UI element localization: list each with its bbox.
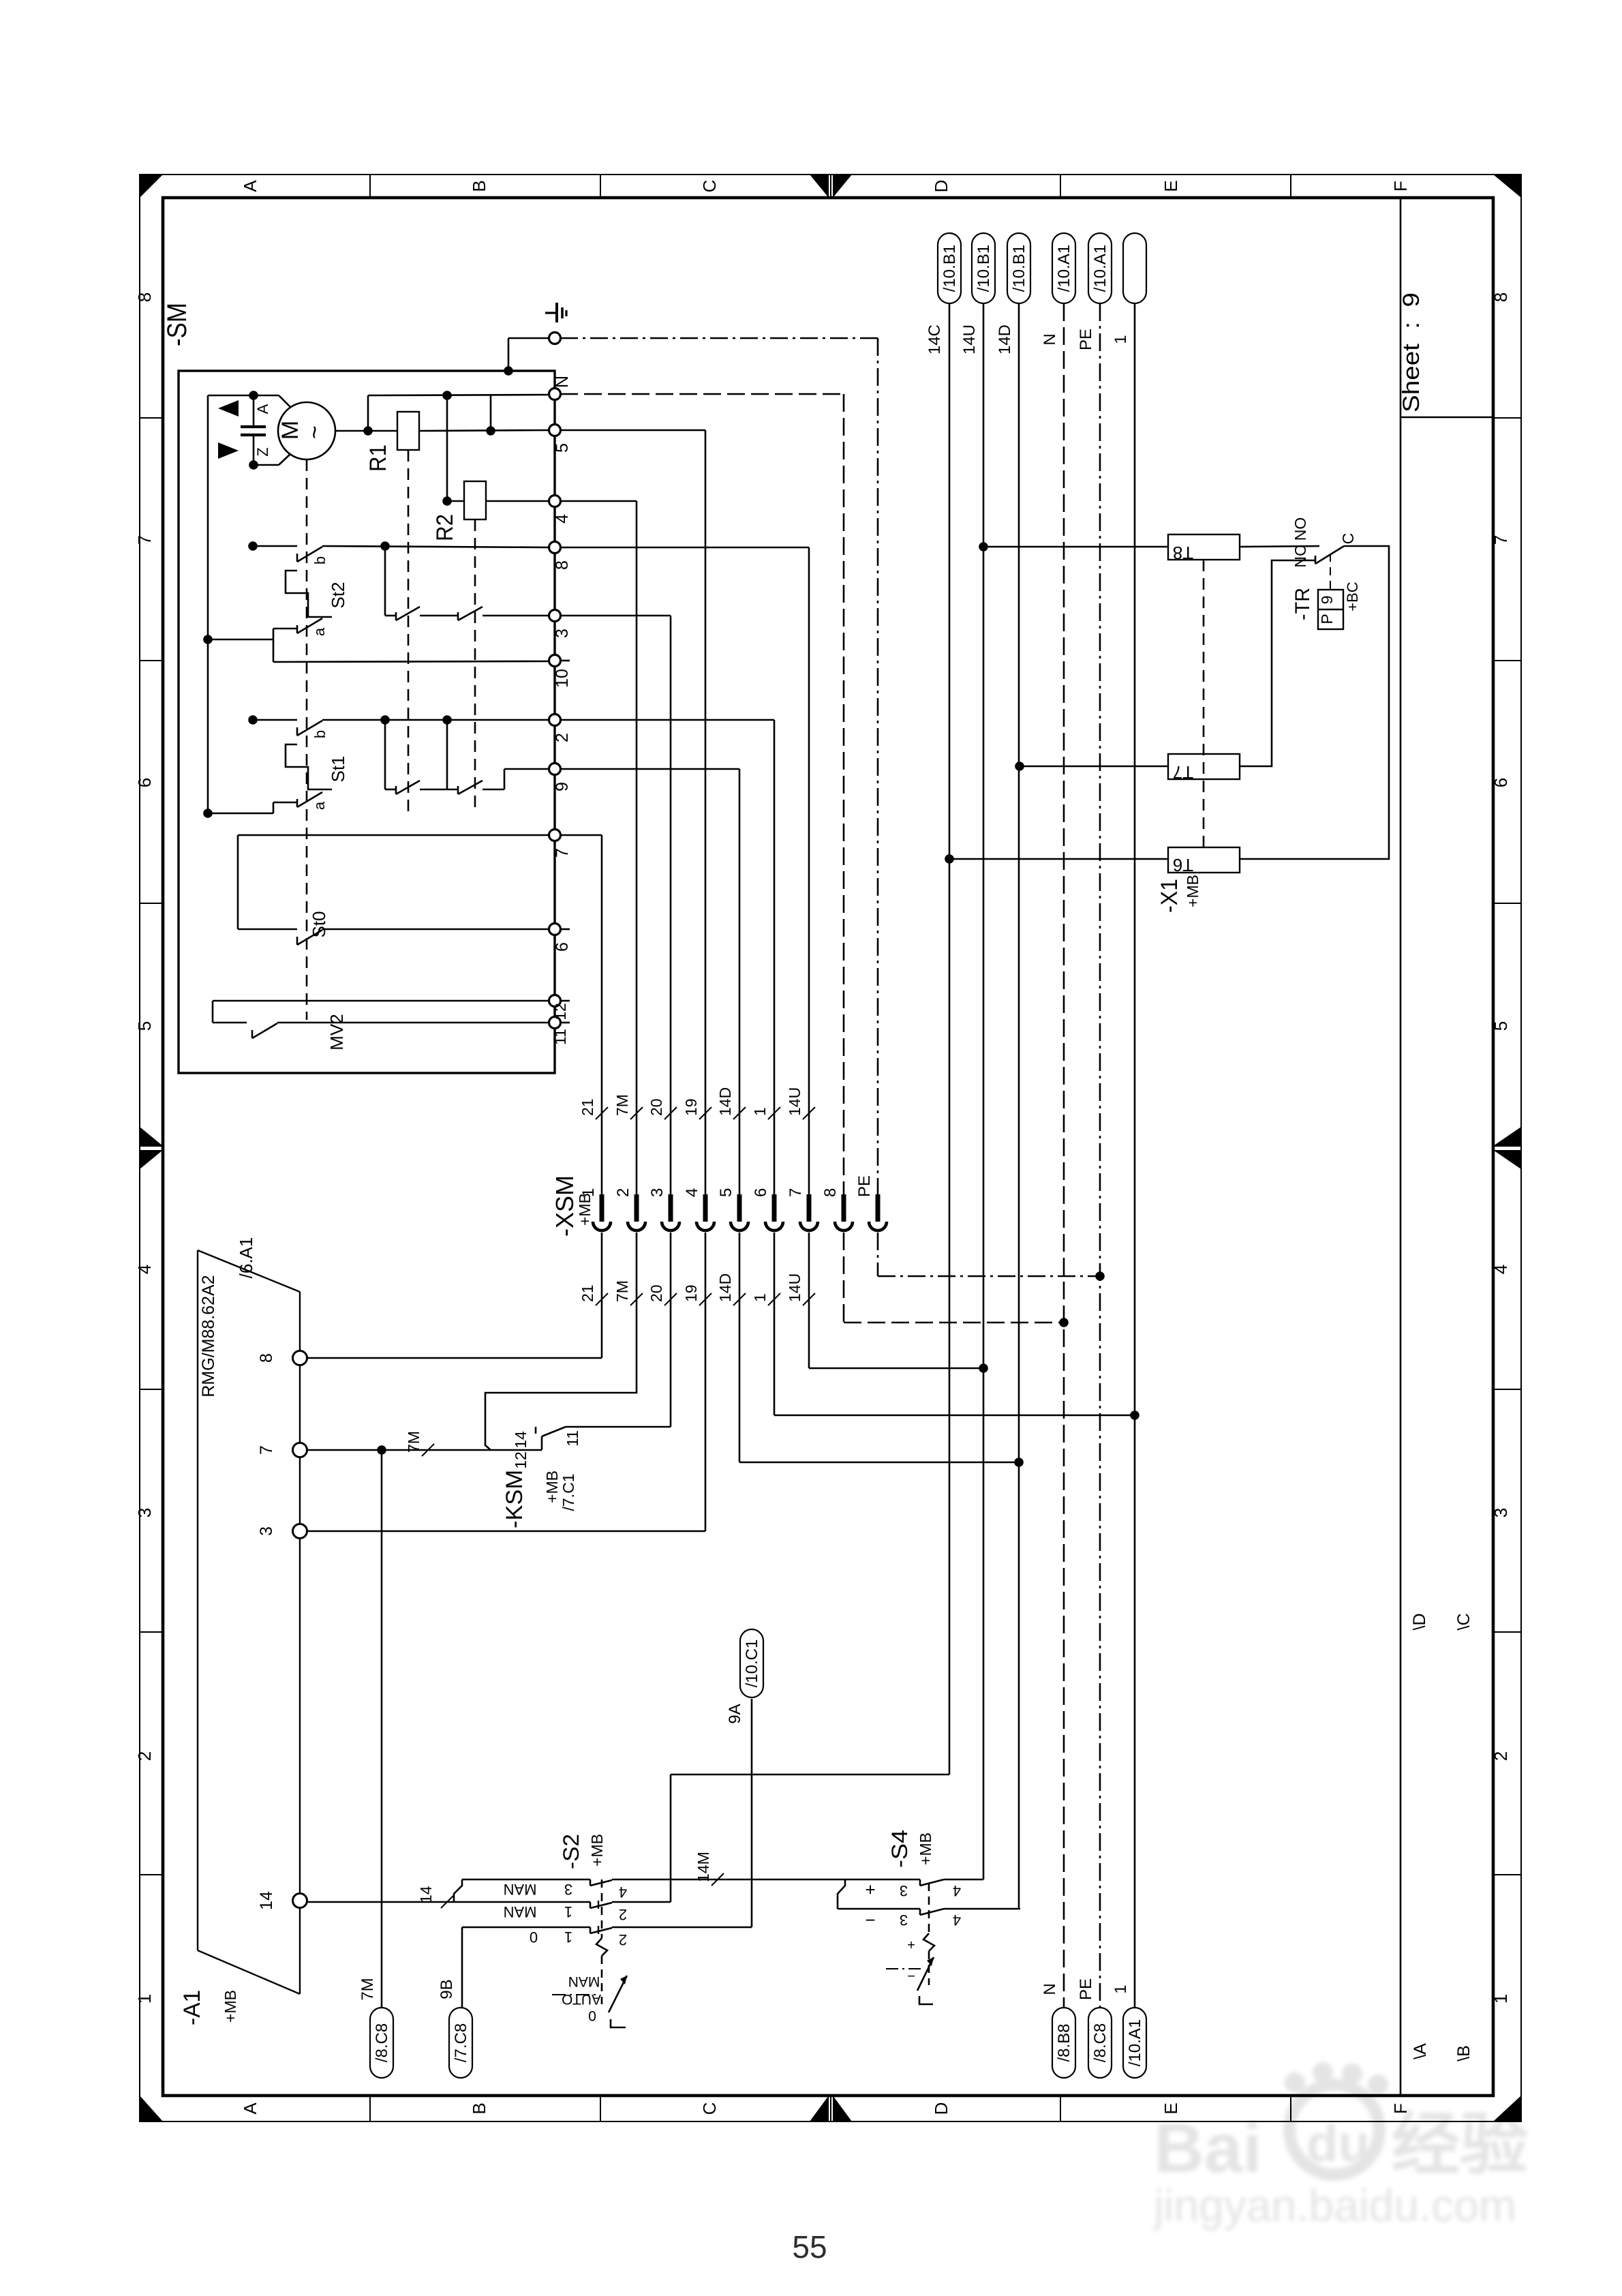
- svg-text:-A1: -A1: [179, 1990, 205, 2025]
- svg-text:4: 4: [1490, 1265, 1511, 1274]
- svg-text:14D: 14D: [716, 1087, 734, 1116]
- svg-text:2: 2: [1490, 1751, 1511, 1761]
- svg-text:2: 2: [619, 1931, 627, 1948]
- svg-text:b: b: [311, 556, 328, 564]
- svg-text:NC: NC: [1291, 545, 1309, 567]
- svg-text:R1: R1: [365, 444, 391, 472]
- svg-text:21: 21: [579, 1098, 596, 1116]
- svg-text:14: 14: [417, 1886, 435, 1903]
- svg-text:/7.C8: /7.C8: [452, 2023, 470, 2062]
- svg-text:/10.B1: /10.B1: [975, 245, 993, 292]
- svg-text:RMG/M88.62A2: RMG/M88.62A2: [199, 1275, 218, 1397]
- svg-text:2: 2: [134, 1751, 155, 1761]
- svg-text:1: 1: [1112, 335, 1130, 344]
- svg-text:0: 0: [530, 1929, 538, 1946]
- svg-text:6: 6: [134, 778, 155, 787]
- svg-text:MAN: MAN: [504, 1881, 537, 1898]
- svg-text:+MB: +MB: [543, 1470, 561, 1503]
- svg-text:\D: \D: [1410, 1614, 1429, 1631]
- svg-text:2: 2: [619, 1906, 627, 1923]
- svg-text:+MB: +MB: [221, 1990, 239, 2023]
- svg-text:−: −: [865, 1910, 875, 1931]
- svg-text:3: 3: [134, 1508, 155, 1517]
- svg-text:5: 5: [553, 443, 572, 453]
- svg-text:7M: 7M: [613, 1094, 631, 1116]
- svg-text:AUTO: AUTO: [562, 1991, 601, 2007]
- svg-text:/8.C8: /8.C8: [1091, 2023, 1110, 2062]
- svg-text:+MB: +MB: [576, 1193, 594, 1226]
- svg-text:8: 8: [134, 292, 155, 302]
- svg-text:B: B: [469, 2102, 489, 2114]
- svg-text:/10.A1: /10.A1: [1126, 2019, 1144, 2066]
- svg-text:A: A: [240, 2102, 260, 2115]
- svg-text:C: C: [699, 180, 720, 193]
- svg-text:6: 6: [553, 942, 572, 952]
- svg-text:3: 3: [900, 1912, 908, 1929]
- svg-text:MV2: MV2: [326, 1014, 347, 1050]
- svg-text:F: F: [1390, 181, 1411, 192]
- svg-text:-TR: -TR: [1291, 588, 1314, 620]
- svg-text:Bai: Bai: [1154, 2109, 1262, 2187]
- svg-text:+: +: [907, 1937, 915, 1952]
- svg-text:-SM: -SM: [162, 303, 192, 346]
- svg-text:-X1: -X1: [1157, 879, 1182, 913]
- svg-text:St1: St1: [328, 755, 348, 782]
- svg-text:55: 55: [792, 2229, 827, 2265]
- svg-text:du: du: [1306, 2115, 1370, 2173]
- svg-text:3: 3: [1490, 1508, 1511, 1517]
- svg-text:1: 1: [1490, 1994, 1511, 2004]
- svg-text:1: 1: [564, 1929, 572, 1946]
- svg-text:Z: Z: [254, 447, 271, 456]
- svg-text:14: 14: [257, 1891, 276, 1910]
- svg-text:\C: \C: [1454, 1614, 1473, 1631]
- svg-text:10: 10: [553, 669, 572, 688]
- svg-text:/10.B1: /10.B1: [1010, 245, 1028, 292]
- svg-text:\A: \A: [1411, 2043, 1430, 2059]
- svg-text:2: 2: [614, 1188, 632, 1197]
- svg-text:12: 12: [551, 1003, 569, 1021]
- svg-text:-XSM: -XSM: [551, 1175, 579, 1237]
- svg-text:7M: 7M: [358, 1978, 377, 2000]
- svg-text:D: D: [931, 180, 951, 193]
- svg-text:St2: St2: [328, 581, 348, 608]
- svg-text:5: 5: [717, 1188, 735, 1197]
- svg-text:NO: NO: [1291, 517, 1309, 541]
- svg-text:N: N: [553, 376, 572, 388]
- svg-text:14: 14: [512, 1431, 530, 1449]
- svg-text:N: N: [1041, 1983, 1059, 1995]
- svg-text:1: 1: [134, 1994, 155, 2004]
- svg-text:7: 7: [553, 848, 572, 858]
- svg-text:4: 4: [953, 1912, 961, 1929]
- svg-text:/10.A1: /10.A1: [1055, 245, 1073, 292]
- svg-text:1: 1: [579, 1188, 598, 1197]
- svg-text:14C: 14C: [925, 324, 944, 354]
- svg-text:1: 1: [751, 1107, 769, 1116]
- svg-text:2: 2: [553, 733, 572, 742]
- svg-text:1: 1: [1112, 1984, 1130, 1993]
- svg-text:M: M: [277, 421, 303, 440]
- svg-text:1: 1: [751, 1293, 769, 1302]
- svg-text:7: 7: [257, 1445, 276, 1455]
- svg-text:-S2: -S2: [559, 1834, 583, 1869]
- svg-text:-KSM: -KSM: [502, 1470, 527, 1528]
- svg-text:C: C: [1339, 533, 1357, 545]
- svg-text:19: 19: [682, 1284, 700, 1302]
- svg-text:+: +: [865, 1879, 875, 1900]
- svg-text:14U: 14U: [786, 1087, 804, 1116]
- svg-text:经验: 经验: [1392, 2106, 1528, 2183]
- svg-text:~: ~: [302, 425, 328, 439]
- svg-text:+MB: +MB: [917, 1832, 934, 1865]
- svg-text:3: 3: [648, 1188, 667, 1197]
- svg-text:4: 4: [553, 514, 572, 524]
- svg-text:PE: PE: [1077, 329, 1095, 350]
- svg-text:B: B: [469, 180, 489, 192]
- svg-text:/8.B8: /8.B8: [1055, 2023, 1073, 2061]
- svg-text:/6.A1: /6.A1: [236, 1237, 256, 1279]
- svg-text:PE: PE: [855, 1175, 874, 1197]
- svg-text:b: b: [311, 730, 328, 738]
- svg-text:3: 3: [900, 1882, 908, 1899]
- svg-text:3: 3: [257, 1526, 276, 1536]
- svg-text:7: 7: [786, 1188, 805, 1197]
- svg-text:14U: 14U: [960, 324, 979, 354]
- svg-text:PE: PE: [1077, 1978, 1095, 2000]
- svg-text:20: 20: [647, 1284, 665, 1302]
- svg-text:21: 21: [579, 1284, 596, 1302]
- svg-text:8: 8: [257, 1353, 276, 1363]
- svg-text:/7.C1: /7.C1: [560, 1474, 577, 1511]
- svg-text:MAN: MAN: [568, 1974, 600, 1989]
- svg-text:a: a: [311, 627, 328, 636]
- svg-text:14D: 14D: [716, 1273, 734, 1302]
- svg-text:11: 11: [564, 1430, 581, 1447]
- svg-text:4: 4: [134, 1265, 155, 1274]
- svg-text:7: 7: [134, 535, 155, 545]
- svg-text:E: E: [1161, 180, 1181, 192]
- svg-text:1: 1: [564, 1903, 572, 1920]
- svg-text:T6: T6: [1173, 855, 1193, 875]
- svg-text:jingyan.baidu.com: jingyan.baidu.com: [1152, 2180, 1516, 2231]
- svg-text:7M: 7M: [613, 1280, 631, 1302]
- svg-text:9A: 9A: [726, 1704, 744, 1723]
- svg-text:\B: \B: [1454, 2045, 1473, 2061]
- svg-text:12: 12: [512, 1451, 530, 1469]
- svg-text:0: 0: [588, 2008, 596, 2023]
- svg-text:A: A: [240, 180, 260, 192]
- svg-text:9: 9: [553, 782, 572, 791]
- svg-text:19: 19: [682, 1098, 700, 1116]
- svg-text:+BC: +BC: [1344, 581, 1361, 611]
- svg-text:9B: 9B: [438, 1979, 456, 1999]
- svg-text:/10.C1: /10.C1: [743, 1640, 761, 1688]
- svg-text:T7: T7: [1173, 762, 1193, 783]
- svg-text:4: 4: [683, 1188, 701, 1197]
- svg-text:St0: St0: [309, 911, 329, 937]
- svg-text:8: 8: [553, 560, 572, 570]
- svg-text:+MB: +MB: [1184, 875, 1202, 907]
- svg-text:6: 6: [1490, 778, 1511, 787]
- svg-text:R2: R2: [432, 514, 458, 541]
- svg-text:14M: 14M: [694, 1852, 712, 1882]
- svg-text:T8: T8: [1173, 543, 1193, 563]
- svg-text:5: 5: [1490, 1021, 1511, 1031]
- svg-text:14U: 14U: [786, 1273, 804, 1302]
- svg-text:MAN: MAN: [504, 1903, 537, 1920]
- svg-text:A: A: [254, 404, 271, 414]
- svg-text:a: a: [311, 801, 328, 810]
- svg-text:Sheet : 9: Sheet : 9: [1398, 292, 1424, 412]
- svg-text:4: 4: [953, 1882, 961, 1899]
- svg-text:8: 8: [1490, 292, 1511, 302]
- svg-text:/10.B1: /10.B1: [940, 245, 959, 292]
- svg-text:P: P: [1318, 614, 1336, 624]
- svg-text:C: C: [699, 2102, 720, 2115]
- svg-text:D: D: [931, 2102, 951, 2115]
- svg-text:7M: 7M: [405, 1431, 423, 1453]
- svg-text:−: −: [907, 1968, 915, 1983]
- svg-text:14D: 14D: [996, 324, 1014, 354]
- svg-text:N: N: [1041, 333, 1059, 345]
- svg-text:3: 3: [564, 1881, 572, 1898]
- svg-text:4: 4: [619, 1884, 627, 1901]
- svg-text:+MB: +MB: [588, 1834, 606, 1867]
- svg-text:6: 6: [752, 1188, 770, 1197]
- svg-text:7: 7: [1490, 535, 1511, 545]
- svg-text:9: 9: [1318, 596, 1336, 605]
- svg-text:11: 11: [551, 1029, 569, 1045]
- svg-text:3: 3: [553, 629, 572, 638]
- svg-text:20: 20: [647, 1098, 665, 1116]
- svg-text:/8.C8: /8.C8: [373, 2023, 391, 2062]
- svg-text:-S4: -S4: [887, 1830, 912, 1868]
- svg-text:/10.A1: /10.A1: [1091, 245, 1110, 292]
- svg-text:8: 8: [821, 1188, 840, 1197]
- svg-text:5: 5: [134, 1021, 155, 1031]
